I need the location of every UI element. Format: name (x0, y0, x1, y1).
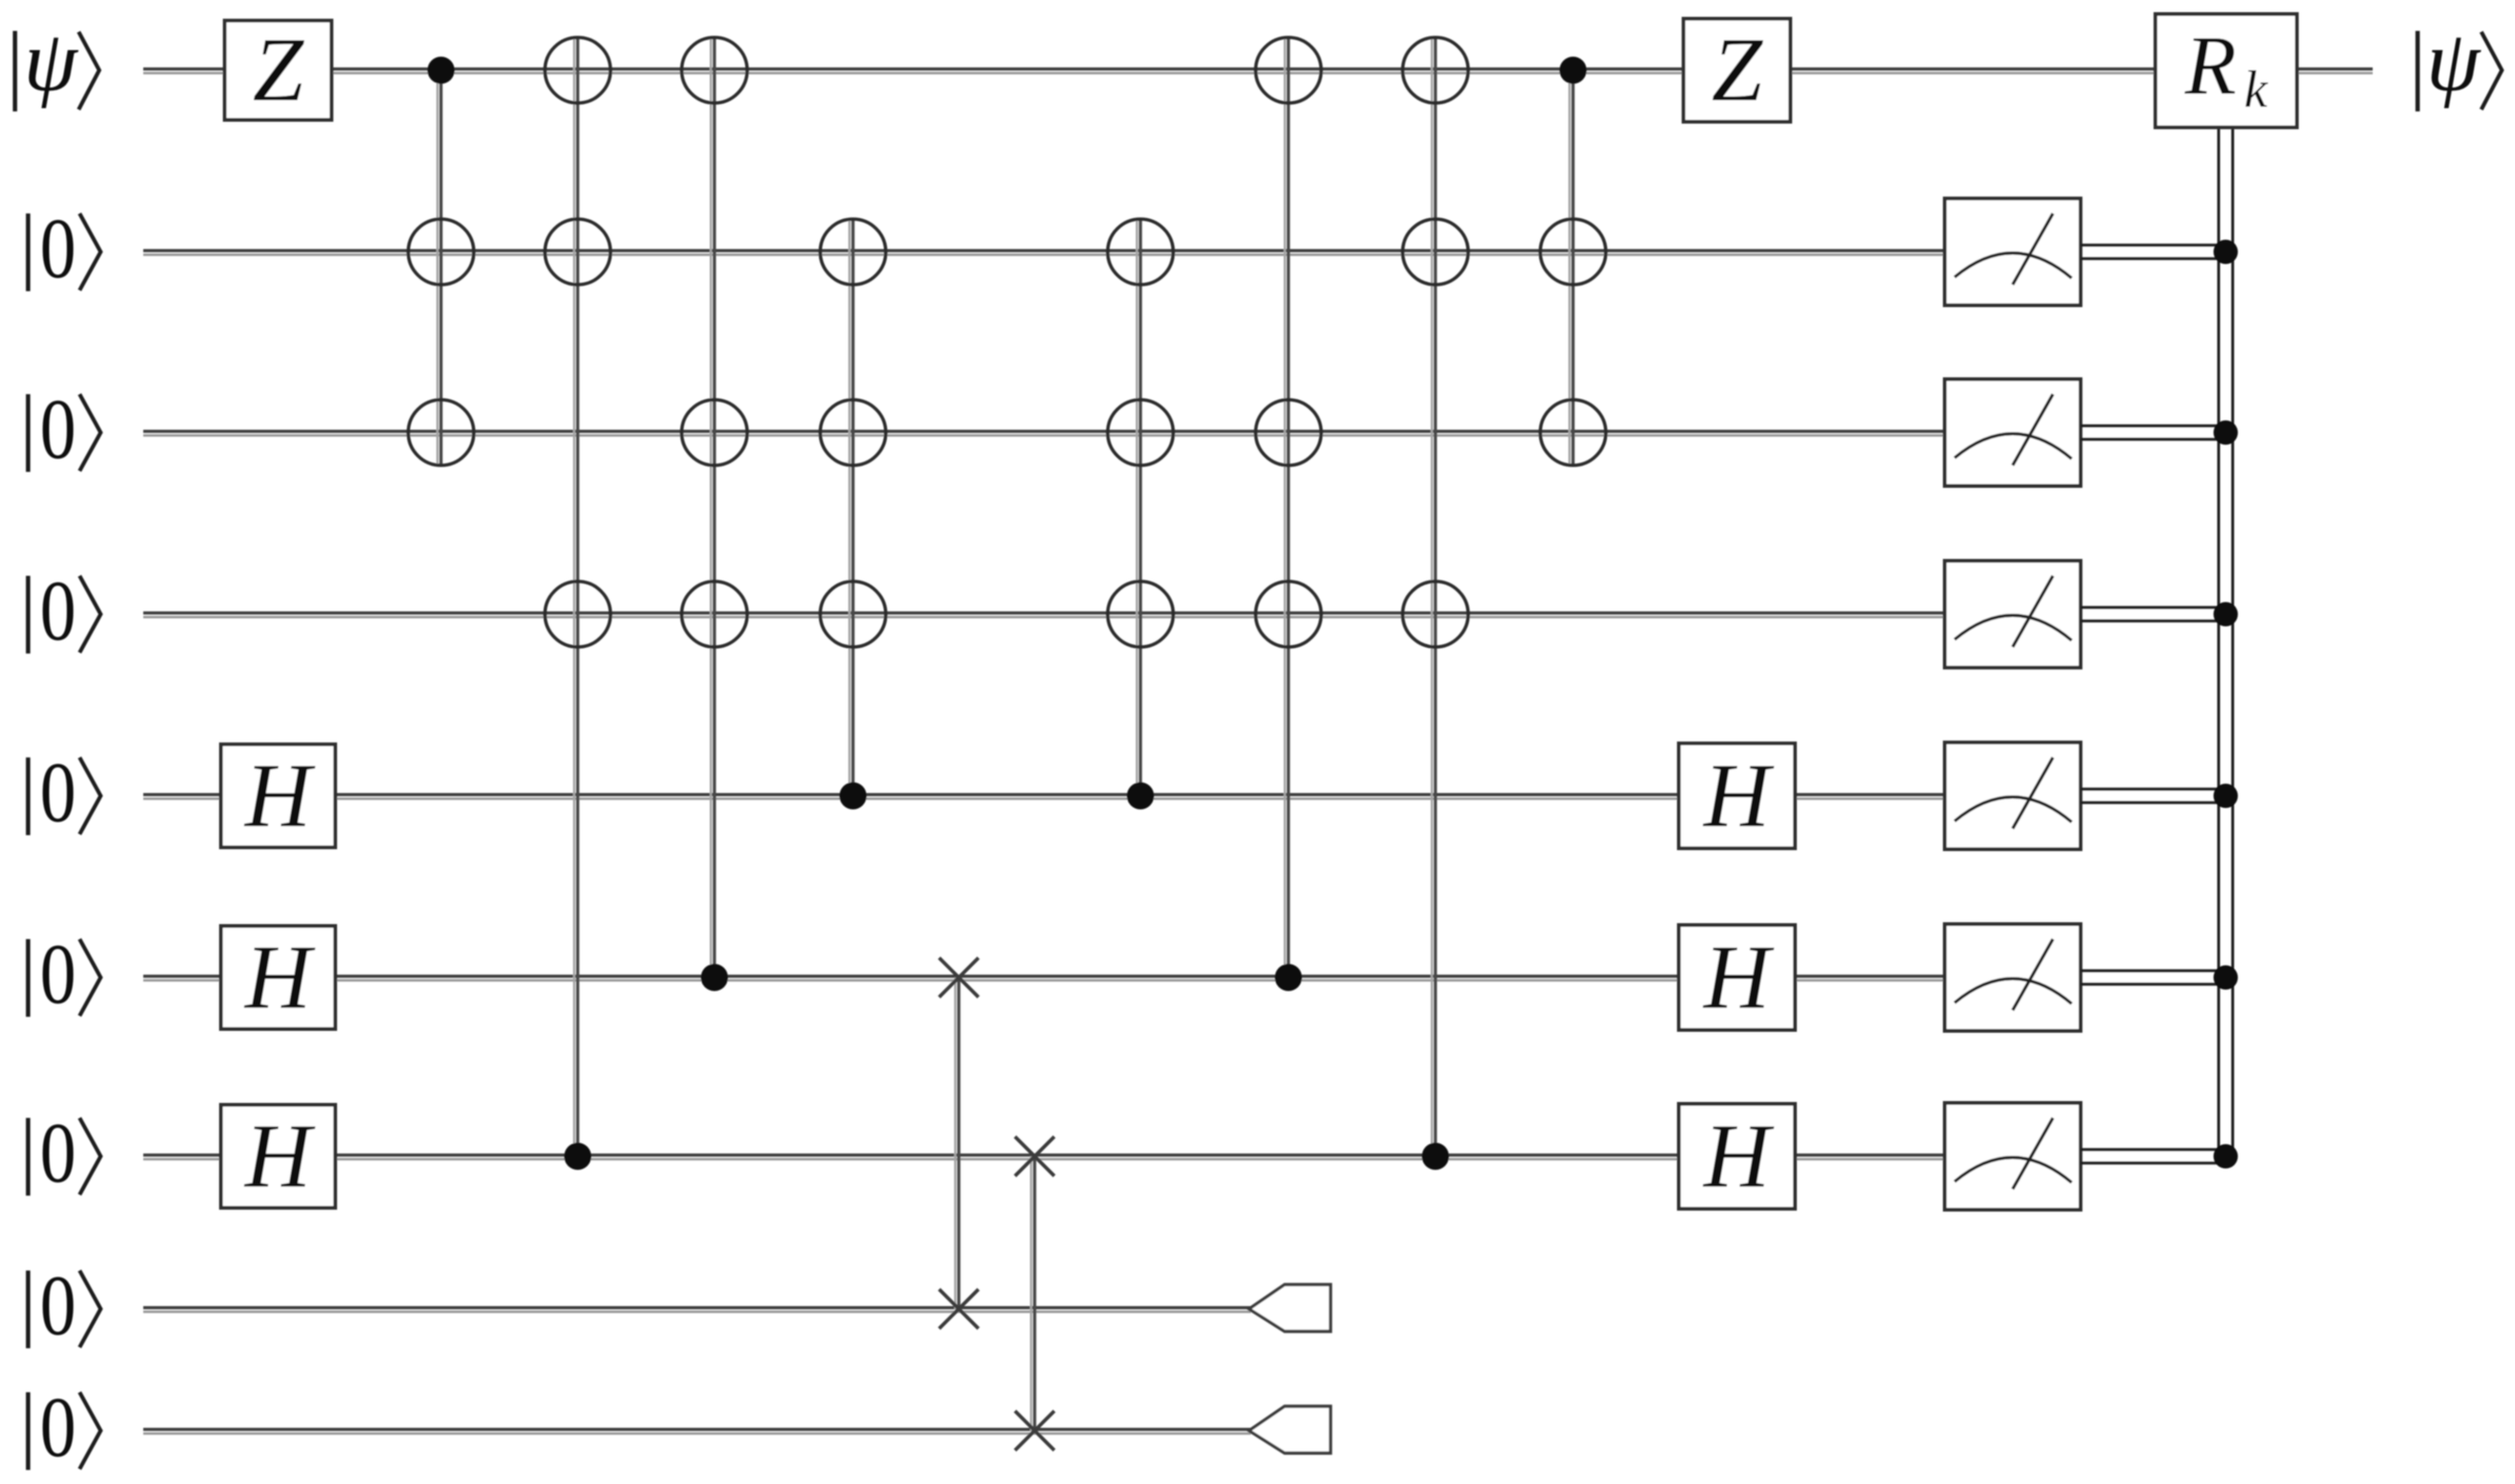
svg-text:0: 0 (40, 382, 77, 478)
vertical CNOT c3 (q6 ctrl -> q1,q3,q4) (711, 37, 714, 977)
classical junction dot q2 (2213, 240, 2238, 264)
CNOT target c8 on q3 (1256, 400, 1321, 465)
qubit label |0> q9 (28, 1380, 101, 1476)
vertical SWAP c6 (q7 <-> q9) (1031, 1156, 1035, 1431)
swap cross c6 on q7 (1015, 1137, 1054, 1176)
gate H on q7 (left) (221, 1105, 335, 1208)
svg-text:Z: Z (1712, 20, 1764, 121)
vertical CNOT c10 (q1 ctrl -> q2,q3) (1569, 70, 1573, 465)
svg-text:0: 0 (40, 1106, 77, 1201)
svg-text:0: 0 (40, 927, 77, 1022)
vertical CNOT c9 (q7 ctrl -> q1,q2,q4) (1432, 37, 1435, 1156)
wire q9 (143, 1430, 1251, 1433)
qubit label |0> q5 (28, 745, 101, 841)
CNOT target c2 on q1 (545, 37, 610, 103)
svg-text:H: H (243, 927, 316, 1028)
svg-text:0: 0 (40, 564, 77, 659)
vertical CNOT c2 (q7 ctrl -> q1,q2,q4) (574, 37, 578, 1156)
CNOT target c9 on q2 (1403, 219, 1468, 285)
classical junction dot q7 (2213, 1144, 2238, 1168)
wire q4 (143, 613, 1947, 617)
vertical CNOT c7 (q5 ctrl -> q2,q3,q4) (1137, 219, 1140, 796)
CNOT target c10 on q2 (1540, 219, 1606, 285)
svg-text:R: R (2184, 20, 2237, 112)
svg-text:H: H (1702, 745, 1775, 846)
classical junction dot q6 (2213, 965, 2238, 990)
CNOT target c3 on q1 (682, 37, 747, 103)
swap cross c6 on q9 (1015, 1411, 1054, 1450)
CNOT target c7 on q2 (1108, 219, 1173, 285)
gate H on q6 (right) (1679, 925, 1795, 1030)
measurement meter q5 (1945, 742, 2081, 849)
wire q7 (143, 1155, 1947, 1159)
gate Z on q1 (left) (225, 20, 331, 121)
CNOT target c9 on q4 (1403, 581, 1468, 647)
classical junction dot q3 (2213, 420, 2238, 445)
discard pennant q9 (1249, 1406, 1331, 1453)
classical junction dot q5 (2213, 784, 2238, 808)
CNOT target c3 on q3 (682, 400, 747, 465)
svg-text:H: H (1702, 1106, 1775, 1207)
svg-text:ψ: ψ (23, 13, 79, 109)
control dot c1 on q1 (428, 57, 455, 84)
swap cross c5 on q6 (939, 958, 978, 997)
qubit label |0> q4 (28, 564, 101, 659)
CNOT target c1 on q3 (408, 400, 474, 465)
gate H on q6 (left) (221, 926, 335, 1029)
qubit label |0> q2 (28, 201, 101, 297)
vertical CNOT c1 (q1 ctrl -> q2,q3) (437, 70, 441, 465)
svg-text:H: H (1702, 927, 1775, 1028)
classical double vertical from R_k (2219, 127, 2233, 1156)
qubit label |0> q6 (28, 927, 101, 1022)
CNOT target c1 on q2 (408, 219, 474, 285)
svg-text:H: H (243, 745, 316, 846)
qubit label |psi> input (15, 13, 99, 111)
svg-text:H: H (243, 1106, 316, 1207)
gate R_k on q1 (2155, 14, 2297, 127)
control dot c7 on q5 (1127, 783, 1155, 810)
svg-text:k: k (2244, 61, 2269, 119)
classical double wire q2 (2081, 245, 2220, 258)
qubit label |0> q7 (28, 1106, 101, 1201)
CNOT target c8 on q4 (1256, 581, 1321, 647)
classical double wire q4 (2081, 608, 2220, 621)
wire q8 (143, 1308, 1251, 1312)
svg-text:Z: Z (253, 20, 305, 121)
control dot c2 on q7 (565, 1143, 592, 1170)
gate H on q7 (right) (1679, 1104, 1795, 1209)
measurement meter q4 (1945, 561, 2081, 668)
gate H on q5 (left) (221, 744, 335, 847)
classical junction dot q4 (2213, 602, 2238, 626)
discard pennant q8 (1249, 1285, 1331, 1331)
swap cross c5 on q8 (939, 1289, 978, 1329)
qubit label |0> q3 (28, 382, 101, 478)
CNOT target c7 on q4 (1108, 581, 1173, 647)
classical double wire q6 (2081, 971, 2220, 984)
CNOT target c2 on q2 (545, 219, 610, 285)
svg-text:ψ: ψ (2426, 13, 2481, 109)
wire q3 (143, 432, 1947, 435)
svg-text:0: 0 (40, 1258, 77, 1354)
CNOT target c9 on q1 (1403, 37, 1468, 103)
wire q6 (143, 977, 1947, 980)
measurement meter q7 (1945, 1103, 2081, 1210)
gate Z on q1 (right) (1684, 19, 1790, 122)
CNOT target c8 on q1 (1256, 37, 1321, 103)
wire q2 (143, 251, 1947, 255)
CNOT target c4 on q3 (820, 400, 886, 465)
CNOT target c10 on q3 (1540, 400, 1606, 465)
classical double wire q7 (2081, 1150, 2220, 1163)
classical double wire q5 (2081, 789, 2220, 802)
qubit label |psi> output (2418, 13, 2502, 111)
vertical SWAP c5 (q6 <-> q8) (955, 977, 959, 1309)
svg-text:0: 0 (40, 201, 77, 297)
wire q1 (|psi>) (143, 69, 2373, 73)
CNOT target c2 on q4 (545, 581, 610, 647)
svg-text:0: 0 (40, 1380, 77, 1476)
CNOT target c7 on q3 (1108, 400, 1173, 465)
measurement meter q6 (1945, 924, 2081, 1031)
CNOT target c4 on q4 (820, 581, 886, 647)
measurement meter q2 (1945, 198, 2081, 305)
control dot c8 on q6 (1275, 964, 1302, 992)
vertical CNOT c4 (q5 ctrl -> q2,q3,q4) (849, 219, 853, 796)
svg-text:0: 0 (40, 745, 77, 841)
CNOT target c3 on q4 (682, 581, 747, 647)
control dot c3 on q6 (701, 964, 728, 992)
control dot c4 on q5 (840, 783, 867, 810)
vertical CNOT c8 (q6 ctrl -> q1,q3,q4) (1285, 37, 1288, 977)
measurement meter q3 (1945, 379, 2081, 486)
CNOT target c4 on q2 (820, 219, 886, 285)
wire q5 (143, 795, 1947, 799)
control dot c10 on q1 (1560, 57, 1587, 84)
classical double wire q3 (2081, 426, 2220, 439)
control dot c9 on q7 (1422, 1143, 1449, 1170)
gate H on q5 (right) (1679, 743, 1795, 848)
qubit label |0> q8 (28, 1258, 101, 1354)
